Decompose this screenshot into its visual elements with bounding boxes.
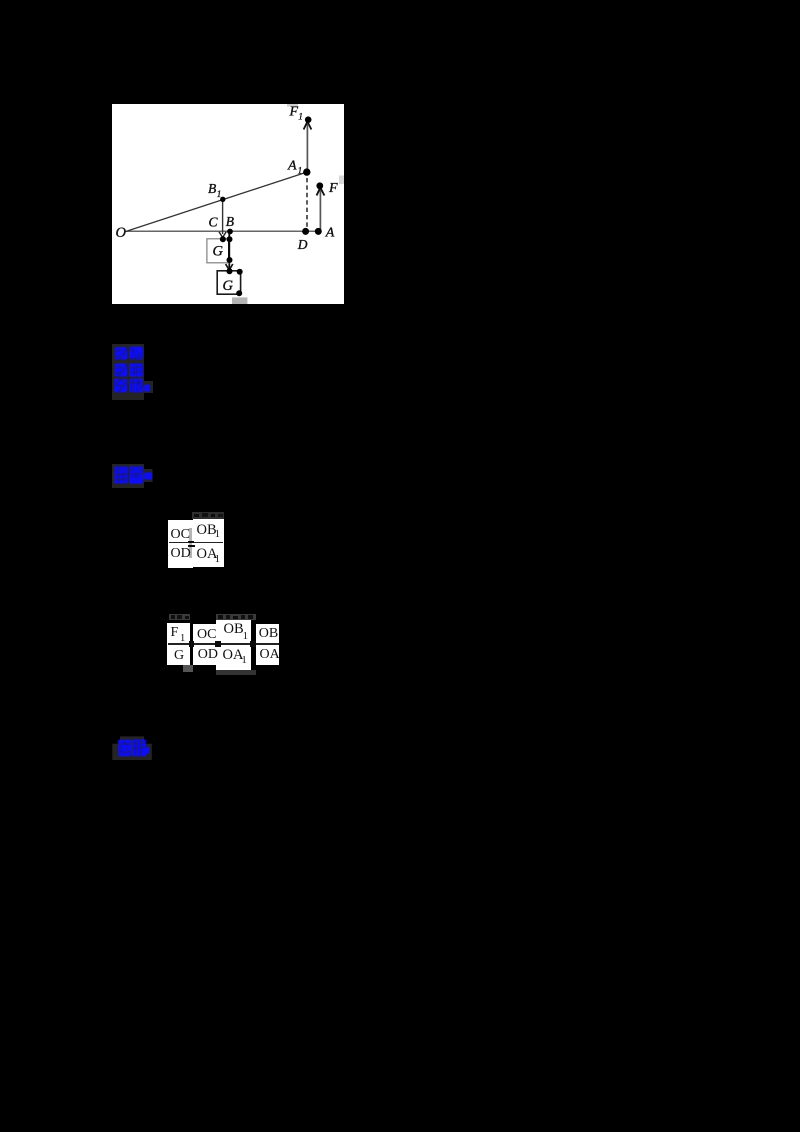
svg-text:A: A bbox=[325, 226, 335, 241]
svg-text:A: A bbox=[287, 159, 297, 174]
svg-text:C: C bbox=[209, 215, 219, 230]
svg-text:1: 1 bbox=[298, 166, 303, 176]
svg-text:B: B bbox=[226, 214, 234, 229]
svg-text:G: G bbox=[223, 278, 234, 294]
svg-text:G: G bbox=[213, 244, 224, 260]
svg-text:O: O bbox=[116, 225, 127, 241]
svg-text:1: 1 bbox=[298, 111, 303, 121]
svg-text:F: F bbox=[289, 104, 299, 119]
svg-text:B: B bbox=[208, 181, 216, 196]
svg-text:D: D bbox=[297, 237, 308, 252]
svg-text:F: F bbox=[328, 181, 338, 196]
svg-text:1: 1 bbox=[217, 189, 222, 199]
